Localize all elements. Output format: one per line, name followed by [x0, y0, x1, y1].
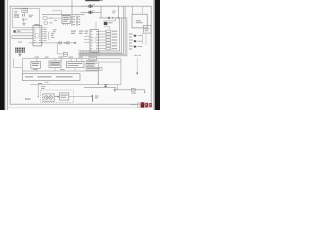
block B3 — [66, 62, 84, 68]
bus wire 2 — [79, 18, 122, 52]
node F — [136, 72, 138, 74]
box power supply T1 — [132, 14, 147, 28]
title text top-left — [15, 7, 28, 10]
bar box 1 — [86, 60, 97, 63]
wire — [142, 7, 144, 15]
label — [95, 96, 99, 99]
brace marking — [48, 32, 50, 41]
pin row 2 — [98, 33, 117, 35]
wire — [84, 86, 116, 88]
wire mid with resistors — [29, 42, 77, 44]
resistor R5 — [131, 89, 136, 94]
box FL1 — [22, 9, 28, 13]
pin row 1 right of U3 — [98, 30, 117, 32]
wire into U2 — [61, 11, 63, 16]
wire — [104, 26, 110, 28]
wire into U3 top — [95, 22, 97, 30]
wire — [69, 96, 92, 98]
pin labels right of U2 col1 — [71, 16, 75, 25]
wire vertical left — [21, 59, 23, 74]
ground — [22, 22, 26, 26]
scan smudge top edge — [85, 0, 100, 1]
stub wires to block row — [37, 59, 87, 62]
box fuse unit — [144, 25, 152, 33]
large empty box right — [98, 59, 121, 85]
wire — [24, 13, 26, 14]
resistor R2 cluster left of U2 — [43, 17, 62, 24]
wire top vertical — [71, 1, 73, 15]
pin ticks right of U1 — [42, 28, 44, 42]
diode D1 dark box — [104, 22, 108, 25]
wire — [81, 5, 119, 7]
bar box 2 — [86, 64, 94, 67]
bus wire 3 — [79, 6, 124, 53]
label text — [53, 29, 57, 32]
wire — [96, 58, 121, 60]
wire — [11, 36, 13, 39]
left page edge line — [6, 0, 9, 110]
block B1 — [31, 61, 41, 68]
pin labels right of U1 — [44, 27, 47, 40]
bar box 3 — [86, 67, 102, 70]
wire hanging — [136, 58, 138, 73]
pin row 7 — [98, 48, 117, 50]
wire — [81, 11, 102, 13]
label text — [112, 11, 116, 14]
box driver — [59, 93, 68, 100]
diode labels — [139, 35, 142, 47]
capacitor C2 — [108, 17, 109, 19]
wire vertical with node — [38, 85, 39, 98]
diode D3 — [134, 40, 143, 42]
red watermark logo — [138, 102, 152, 107]
label text — [45, 81, 49, 84]
left black scan band — [0, 0, 5, 110]
right black scan band — [155, 0, 160, 110]
IC U2 — [62, 16, 70, 24]
bottom page shadow line — [8, 106, 153, 109]
label on rail — [60, 68, 65, 71]
diode D4 — [134, 46, 143, 48]
pin row 3 — [98, 36, 117, 38]
capacitor C1 — [22, 14, 25, 16]
wire — [109, 27, 111, 30]
dashed enclosure box (tuner section) — [13, 8, 40, 28]
pin row 5 — [98, 42, 117, 44]
bus wire 4 — [79, 6, 126, 54]
wire bottom-section top rail — [22, 58, 89, 60]
wire — [142, 33, 144, 44]
labels above rail — [35, 56, 83, 59]
node B — [118, 17, 119, 18]
ground — [113, 87, 116, 91]
wire — [52, 10, 62, 12]
transistor Q1 — [22, 18, 27, 22]
label text — [134, 54, 141, 57]
ground — [18, 53, 21, 56]
pin wires left of U3 — [84, 36, 90, 42]
labels above U3 — [71, 31, 88, 34]
wire long horizontal — [30, 84, 98, 86]
schematic frame border — [10, 6, 151, 104]
long box bottom — [22, 74, 80, 81]
arrow into U3 — [75, 42, 77, 44]
capacitor C4 polarized — [25, 98, 31, 100]
pin labels left of U1 — [17, 30, 22, 43]
page background — [0, 0, 160, 110]
label — [38, 83, 42, 84]
block B2 — [49, 61, 61, 67]
right label column — [129, 34, 133, 50]
IC U3 center — [90, 29, 98, 52]
pin row 4 — [98, 39, 117, 41]
label text — [29, 15, 34, 17]
wire — [145, 33, 147, 45]
zener D5 — [104, 85, 107, 88]
right page edge line — [152, 0, 155, 110]
node C — [64, 42, 65, 43]
resistor R4 — [67, 42, 70, 44]
wire into T1 — [131, 7, 133, 15]
resistor R3 — [59, 42, 62, 44]
node D — [98, 83, 99, 84]
box K1 — [89, 56, 96, 60]
IC U1 tall — [33, 24, 42, 46]
label text — [33, 68, 37, 71]
label — [108, 22, 112, 23]
polarized capacitor C6 — [89, 4, 95, 8]
pin row 6 — [98, 45, 117, 47]
wire — [115, 18, 117, 21]
label text — [14, 11, 18, 13]
bus wire 1 — [79, 18, 120, 51]
pin wires left of U1 — [12, 30, 33, 39]
jack J1 — [14, 30, 16, 33]
page number text — [130, 104, 136, 105]
wire lower — [103, 20, 115, 22]
display block — [15, 48, 25, 53]
wire — [57, 43, 63, 54]
node E — [144, 92, 145, 93]
pin labels right of U2 col2 — [76, 16, 80, 25]
motor M1 — [43, 94, 54, 101]
wire bottom-section lower rail — [22, 71, 98, 83]
wire with capacitors — [99, 17, 127, 19]
bus wire 5 — [79, 18, 127, 56]
capacitor C5 polarized — [91, 95, 93, 102]
wire — [117, 6, 119, 18]
arrow — [55, 96, 59, 97]
left feeder wires — [14, 59, 23, 68]
bus label ticks — [81, 50, 100, 56]
wire horizontal into U2 row — [42, 13, 85, 15]
wire verticals into long box — [37, 67, 75, 71]
node A — [112, 17, 113, 18]
dashed motor enclosure — [41, 90, 74, 103]
diode D2 — [134, 35, 143, 37]
label text — [41, 86, 45, 89]
polarized capacitor C7 — [89, 10, 95, 14]
box X1 — [63, 52, 67, 56]
resistor R1 — [14, 14, 18, 17]
wire right lower — [117, 85, 145, 93]
pin ticks U2 — [63, 14, 69, 25]
wire — [100, 6, 102, 18]
